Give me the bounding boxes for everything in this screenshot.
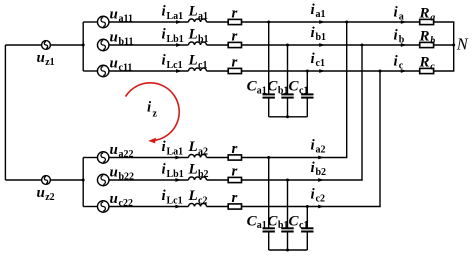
svg-text:c11: c11 [119,62,133,73]
svg-text:c2: c2 [198,195,207,206]
svg-text:u: u [110,29,118,45]
svg-text:a1: a1 [316,9,326,20]
svg-text:C: C [267,213,278,229]
svg-text:R: R [419,28,430,44]
svg-text:c1: c1 [299,85,308,96]
svg-text:La1: La1 [167,146,184,157]
svg-text:b: b [399,35,405,46]
svg-text:R: R [419,5,430,21]
svg-text:c: c [399,61,404,72]
svg-text:b22: b22 [119,171,135,182]
svg-text:C: C [289,213,300,229]
svg-text:u: u [110,164,118,180]
svg-text:b2: b2 [316,167,327,178]
svg-text:L: L [188,27,198,43]
svg-text:a1: a1 [257,85,267,96]
svg-text:r: r [232,6,238,22]
svg-text:Lc1: Lc1 [167,195,183,206]
svg-text:a2: a2 [198,146,208,157]
svg-text:u: u [110,191,118,207]
svg-text:u: u [37,50,45,66]
svg-text:r: r [232,164,238,180]
svg-text:c1: c1 [316,58,325,69]
svg-text:b1: b1 [316,32,327,43]
svg-text:L: L [188,188,198,204]
svg-text:z2: z2 [45,192,54,203]
svg-text:b1: b1 [278,85,289,96]
svg-text:c1: c1 [198,60,207,71]
svg-text:b1: b1 [278,220,289,231]
svg-text:c2: c2 [316,194,325,205]
svg-text:u: u [37,185,45,201]
svg-text:L: L [188,162,198,178]
svg-text:a1: a1 [198,11,208,22]
svg-text:b11: b11 [119,36,134,47]
svg-text:c: c [430,61,435,72]
svg-text:r: r [232,55,238,71]
svg-text:b2: b2 [198,169,209,180]
svg-text:c22: c22 [119,198,133,209]
svg-text:u: u [110,55,118,71]
svg-text:a: a [430,12,435,23]
svg-text:N: N [456,35,469,54]
svg-text:a1: a1 [257,220,267,231]
svg-text:C: C [289,79,300,95]
svg-text:R: R [419,54,430,70]
svg-text:u: u [110,6,118,22]
svg-text:C: C [267,79,278,95]
svg-text:Lb1: Lb1 [167,169,184,180]
svg-text:L: L [188,4,198,20]
svg-text:Lc1: Lc1 [167,60,183,71]
svg-text:L: L [188,139,198,155]
svg-text:b: b [430,35,435,46]
svg-text:b1: b1 [198,34,209,45]
svg-text:Lb1: Lb1 [167,34,184,45]
svg-text:a2: a2 [316,145,326,156]
svg-text:r: r [232,29,238,45]
svg-text:z1: z1 [45,57,54,68]
svg-text:a: a [399,12,404,23]
svg-text:r: r [232,190,238,206]
svg-text:u: u [110,142,118,158]
svg-text:r: r [232,141,238,157]
svg-text:a11: a11 [119,13,133,24]
svg-text:L: L [188,53,198,69]
svg-text:c1: c1 [299,220,308,231]
svg-text:a22: a22 [119,149,134,160]
svg-text:La1: La1 [167,11,184,22]
svg-text:z: z [153,109,158,120]
